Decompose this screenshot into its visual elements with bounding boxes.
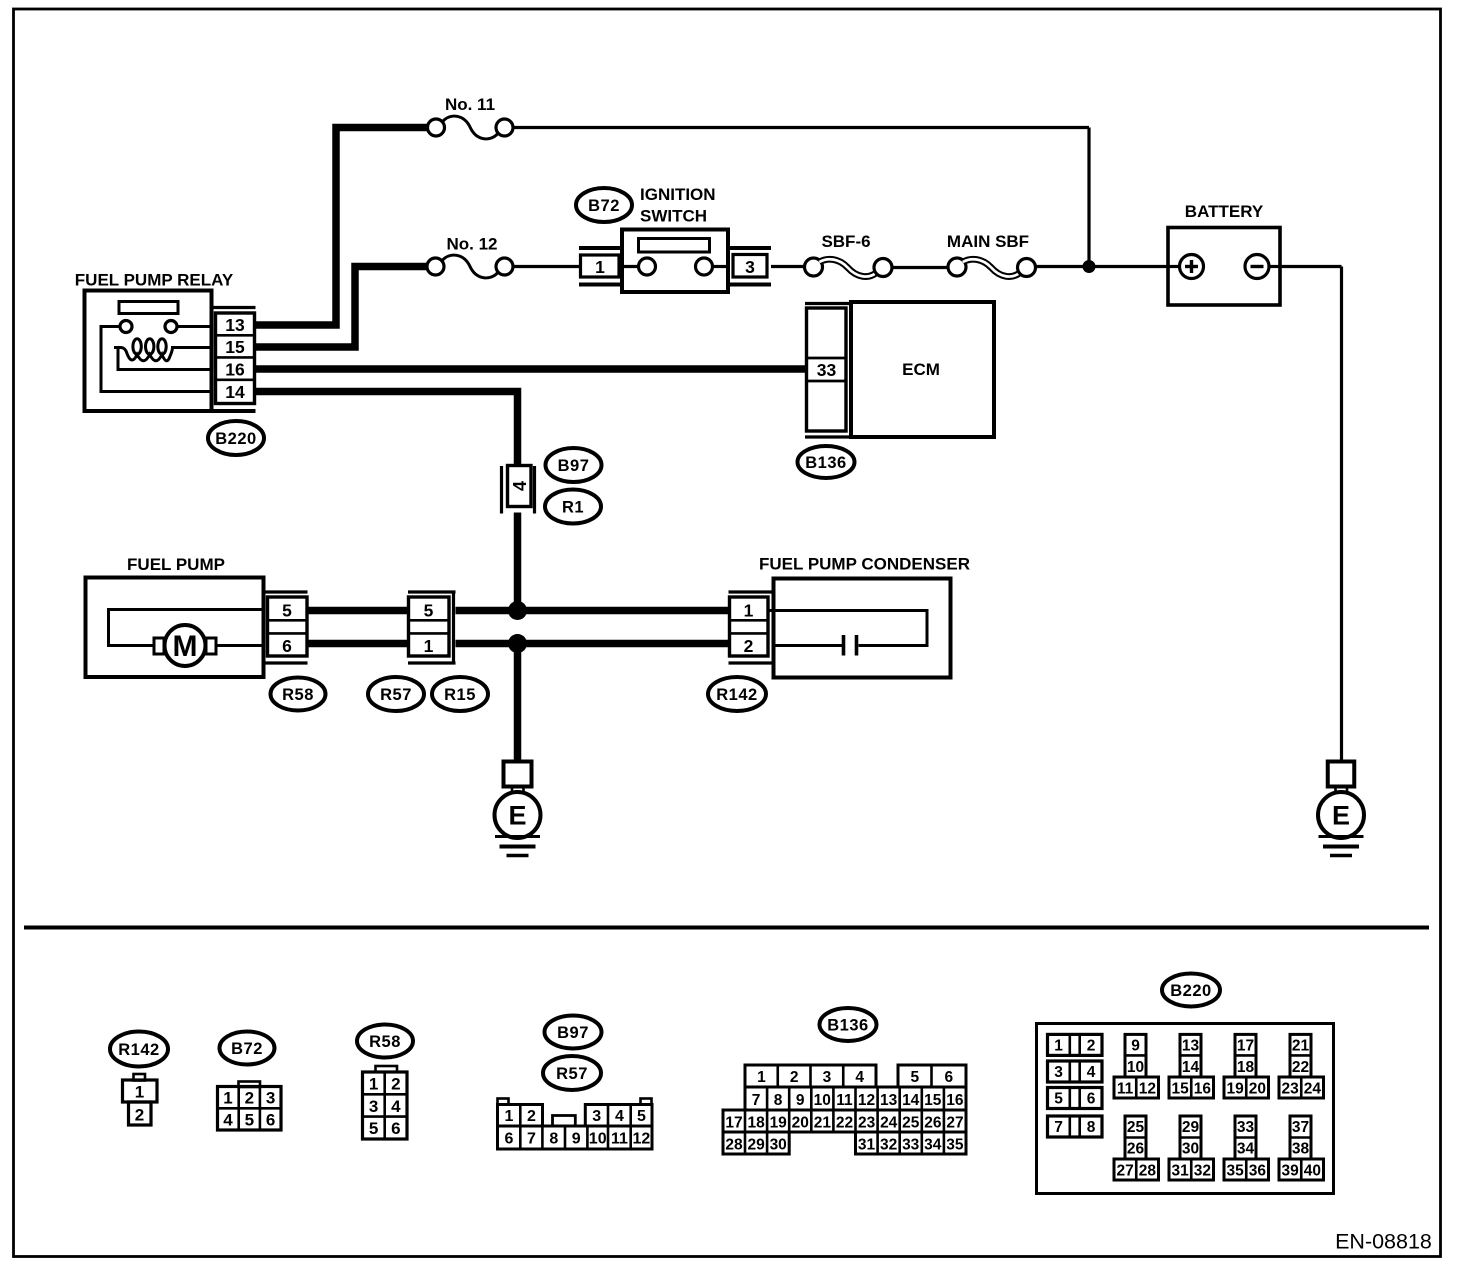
svg-text:28: 28 bbox=[725, 1137, 743, 1154]
svg-text:2: 2 bbox=[527, 1108, 536, 1125]
svg-text:B97: B97 bbox=[558, 457, 590, 475]
svg-text:R58: R58 bbox=[369, 1033, 401, 1051]
svg-text:6: 6 bbox=[391, 1119, 400, 1138]
svg-text:18: 18 bbox=[1237, 1059, 1255, 1076]
svg-text:14: 14 bbox=[1182, 1059, 1200, 1076]
svg-text:6: 6 bbox=[944, 1069, 953, 1086]
svg-text:B220: B220 bbox=[1170, 982, 1211, 1000]
svg-text:37: 37 bbox=[1292, 1119, 1309, 1136]
svg-text:20: 20 bbox=[792, 1115, 809, 1132]
svg-text:15: 15 bbox=[924, 1092, 942, 1109]
svg-text:21: 21 bbox=[814, 1115, 832, 1132]
svg-text:21: 21 bbox=[1292, 1037, 1310, 1054]
svg-text:ECM: ECM bbox=[902, 360, 940, 379]
svg-text:1: 1 bbox=[223, 1089, 232, 1108]
svg-text:39: 39 bbox=[1281, 1163, 1299, 1180]
svg-text:12: 12 bbox=[858, 1092, 875, 1109]
svg-text:33: 33 bbox=[1237, 1119, 1255, 1136]
svg-text:R57: R57 bbox=[380, 686, 412, 704]
svg-text:5: 5 bbox=[282, 600, 292, 620]
svg-text:1: 1 bbox=[1054, 1038, 1063, 1055]
svg-text:33: 33 bbox=[817, 360, 837, 380]
svg-text:35: 35 bbox=[946, 1137, 964, 1154]
svg-text:E: E bbox=[508, 801, 526, 831]
svg-text:M: M bbox=[173, 630, 198, 663]
svg-text:26: 26 bbox=[1127, 1141, 1145, 1158]
svg-text:3: 3 bbox=[592, 1108, 601, 1125]
svg-text:IGNITION: IGNITION bbox=[640, 185, 716, 204]
svg-text:17: 17 bbox=[725, 1115, 742, 1132]
svg-text:1: 1 bbox=[757, 1069, 766, 1086]
svg-text:2: 2 bbox=[744, 636, 754, 656]
svg-text:38: 38 bbox=[1292, 1141, 1310, 1158]
svg-text:17: 17 bbox=[1237, 1037, 1254, 1054]
svg-text:12: 12 bbox=[1139, 1081, 1156, 1098]
svg-text:2: 2 bbox=[391, 1075, 400, 1094]
svg-text:13: 13 bbox=[1182, 1037, 1200, 1054]
svg-text:32: 32 bbox=[1194, 1163, 1211, 1180]
svg-text:14: 14 bbox=[225, 382, 245, 402]
svg-text:40: 40 bbox=[1304, 1163, 1321, 1180]
svg-text:10: 10 bbox=[1127, 1059, 1144, 1076]
svg-text:31: 31 bbox=[1171, 1163, 1189, 1180]
svg-text:26: 26 bbox=[924, 1115, 942, 1132]
svg-text:BATTERY: BATTERY bbox=[1185, 202, 1264, 221]
svg-text:B136: B136 bbox=[827, 1016, 868, 1034]
svg-text:R142: R142 bbox=[716, 686, 757, 704]
svg-text:3: 3 bbox=[369, 1097, 378, 1116]
svg-text:24: 24 bbox=[1304, 1081, 1322, 1098]
svg-text:FUEL PUMP RELAY: FUEL PUMP RELAY bbox=[75, 271, 234, 290]
svg-text:25: 25 bbox=[902, 1115, 920, 1132]
svg-text:10: 10 bbox=[589, 1131, 607, 1148]
svg-text:31: 31 bbox=[858, 1137, 876, 1154]
svg-text:1: 1 bbox=[135, 1083, 144, 1102]
svg-text:MAIN SBF: MAIN SBF bbox=[947, 232, 1029, 251]
svg-text:1: 1 bbox=[369, 1075, 378, 1094]
svg-text:27: 27 bbox=[1116, 1163, 1133, 1180]
svg-text:10: 10 bbox=[814, 1092, 831, 1109]
svg-text:4: 4 bbox=[1087, 1064, 1096, 1081]
svg-text:9: 9 bbox=[1131, 1037, 1140, 1054]
svg-text:R1: R1 bbox=[562, 498, 584, 516]
svg-text:11: 11 bbox=[836, 1092, 853, 1109]
svg-text:8: 8 bbox=[1087, 1119, 1096, 1136]
svg-text:30: 30 bbox=[1182, 1141, 1199, 1158]
svg-text:No. 12: No. 12 bbox=[446, 235, 497, 254]
svg-text:19: 19 bbox=[1226, 1081, 1244, 1098]
svg-text:7: 7 bbox=[752, 1092, 761, 1109]
svg-text:6: 6 bbox=[282, 636, 292, 656]
svg-text:16: 16 bbox=[225, 360, 245, 380]
svg-text:B72: B72 bbox=[588, 197, 620, 215]
svg-text:2: 2 bbox=[245, 1089, 254, 1108]
svg-text:29: 29 bbox=[1182, 1119, 1200, 1136]
svg-text:11: 11 bbox=[611, 1131, 628, 1148]
svg-text:28: 28 bbox=[1139, 1163, 1157, 1180]
svg-text:R57: R57 bbox=[556, 1065, 588, 1083]
svg-text:9: 9 bbox=[572, 1131, 581, 1148]
svg-text:1: 1 bbox=[744, 600, 754, 620]
svg-text:1: 1 bbox=[595, 257, 605, 277]
svg-text:SBF-6: SBF-6 bbox=[821, 232, 870, 251]
svg-text:B72: B72 bbox=[231, 1040, 263, 1058]
svg-text:5: 5 bbox=[1054, 1091, 1063, 1108]
svg-text:7: 7 bbox=[527, 1131, 536, 1148]
svg-text:6: 6 bbox=[1087, 1091, 1096, 1108]
svg-text:22: 22 bbox=[836, 1115, 853, 1132]
svg-text:34: 34 bbox=[1237, 1141, 1255, 1158]
svg-text:FUEL PUMP CONDENSER: FUEL PUMP CONDENSER bbox=[759, 555, 970, 574]
svg-text:34: 34 bbox=[924, 1137, 942, 1154]
svg-text:35: 35 bbox=[1226, 1163, 1244, 1180]
svg-text:27: 27 bbox=[946, 1115, 963, 1132]
svg-text:11: 11 bbox=[1117, 1081, 1134, 1098]
svg-text:4: 4 bbox=[391, 1097, 401, 1116]
svg-text:13: 13 bbox=[225, 315, 245, 335]
svg-text:33: 33 bbox=[902, 1137, 920, 1154]
svg-text:19: 19 bbox=[770, 1115, 788, 1132]
svg-text:1: 1 bbox=[424, 636, 434, 656]
svg-text:16: 16 bbox=[1194, 1081, 1212, 1098]
svg-text:4: 4 bbox=[615, 1108, 624, 1125]
svg-text:R58: R58 bbox=[282, 686, 314, 704]
svg-text:18: 18 bbox=[747, 1115, 765, 1132]
svg-text:B97: B97 bbox=[557, 1024, 589, 1042]
svg-text:5: 5 bbox=[637, 1108, 646, 1125]
svg-text:4: 4 bbox=[223, 1111, 233, 1130]
svg-text:23: 23 bbox=[1281, 1081, 1299, 1098]
svg-text:8: 8 bbox=[774, 1092, 783, 1109]
svg-text:B220: B220 bbox=[215, 430, 256, 448]
svg-text:5: 5 bbox=[424, 600, 434, 620]
svg-text:3: 3 bbox=[823, 1069, 832, 1086]
svg-text:16: 16 bbox=[946, 1092, 964, 1109]
svg-text:15: 15 bbox=[1171, 1081, 1189, 1098]
svg-text:9: 9 bbox=[796, 1092, 805, 1109]
svg-text:6: 6 bbox=[505, 1131, 514, 1148]
svg-text:22: 22 bbox=[1292, 1059, 1309, 1076]
svg-text:1: 1 bbox=[505, 1108, 514, 1125]
svg-text:3: 3 bbox=[745, 257, 755, 277]
svg-text:8: 8 bbox=[549, 1131, 558, 1148]
svg-text:B136: B136 bbox=[805, 454, 846, 472]
svg-text:29: 29 bbox=[747, 1137, 765, 1154]
svg-text:32: 32 bbox=[880, 1137, 897, 1154]
svg-text:No. 11: No. 11 bbox=[445, 95, 495, 114]
svg-text:5: 5 bbox=[369, 1119, 378, 1138]
svg-text:14: 14 bbox=[902, 1092, 920, 1109]
svg-text:6: 6 bbox=[266, 1111, 275, 1130]
svg-text:20: 20 bbox=[1249, 1081, 1266, 1098]
svg-text:7: 7 bbox=[1054, 1119, 1063, 1136]
svg-text:EN-08818: EN-08818 bbox=[1335, 1230, 1432, 1254]
svg-text:30: 30 bbox=[770, 1137, 787, 1154]
svg-text:2: 2 bbox=[1087, 1038, 1096, 1055]
svg-text:25: 25 bbox=[1127, 1119, 1145, 1136]
svg-text:SWITCH: SWITCH bbox=[640, 207, 707, 226]
svg-text:4: 4 bbox=[855, 1069, 864, 1086]
svg-text:FUEL PUMP: FUEL PUMP bbox=[127, 555, 225, 574]
svg-text:36: 36 bbox=[1249, 1163, 1267, 1180]
svg-text:23: 23 bbox=[858, 1115, 876, 1132]
svg-text:3: 3 bbox=[1054, 1064, 1063, 1081]
svg-text:5: 5 bbox=[910, 1069, 919, 1086]
svg-text:R15: R15 bbox=[444, 686, 476, 704]
svg-text:3: 3 bbox=[266, 1089, 275, 1108]
svg-text:13: 13 bbox=[880, 1092, 898, 1109]
svg-text:4: 4 bbox=[510, 481, 530, 491]
svg-text:5: 5 bbox=[245, 1111, 254, 1130]
svg-text:E: E bbox=[1332, 801, 1350, 831]
svg-text:24: 24 bbox=[880, 1115, 898, 1132]
svg-text:15: 15 bbox=[225, 337, 245, 357]
svg-text:2: 2 bbox=[790, 1069, 799, 1086]
svg-text:12: 12 bbox=[633, 1131, 651, 1148]
svg-text:R142: R142 bbox=[118, 1041, 159, 1059]
svg-text:2: 2 bbox=[135, 1106, 144, 1125]
